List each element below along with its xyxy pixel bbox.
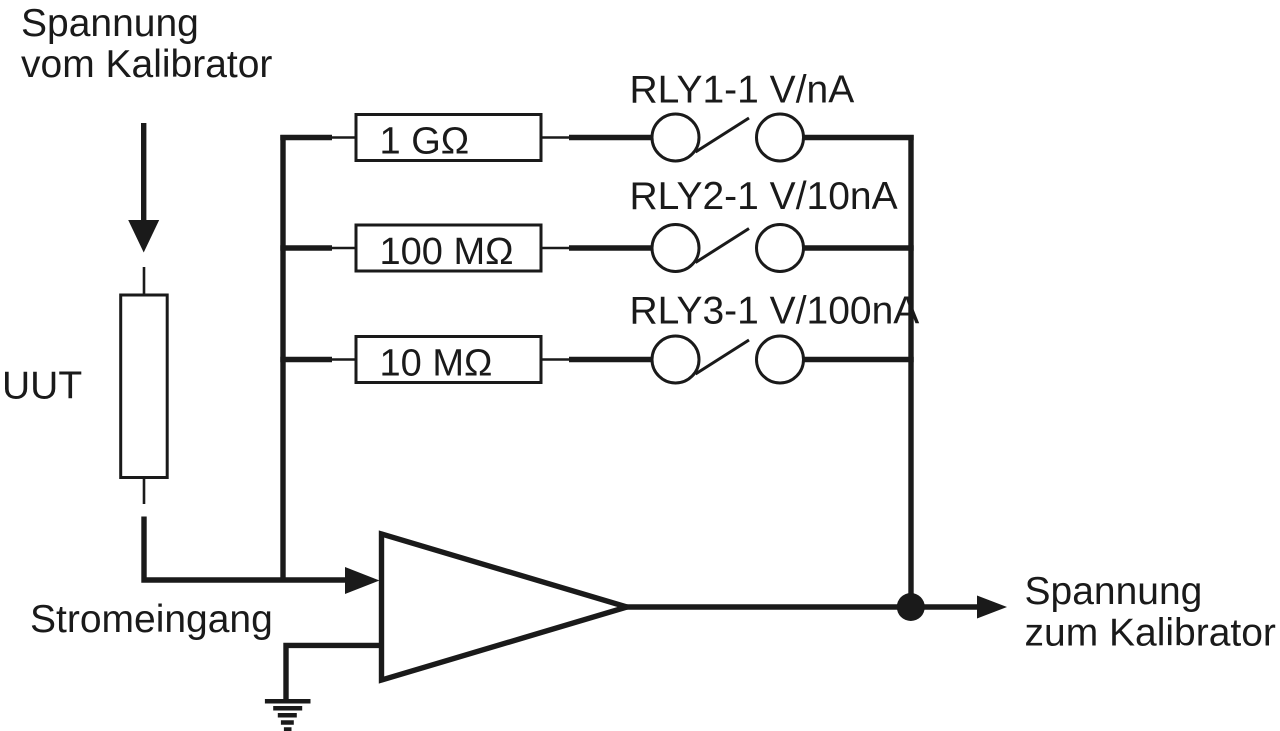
svg-text:Spannung: Spannung [21, 2, 199, 45]
svg-text:vom Kalibrator: vom Kalibrator [21, 43, 272, 86]
wire: row2 to right bus [804, 245, 914, 250]
wire: UUT bottom lead [143, 477, 146, 504]
UUT (unit under test body) [121, 295, 168, 478]
svg-text:UUT: UUT [2, 365, 82, 408]
resistor 10 MOhm box [356, 337, 541, 383]
relay RLY3 contact right terminal [757, 336, 804, 383]
wire: row2 stub thin to resistor [331, 247, 356, 250]
wire: row3 stub thin to resistor [331, 358, 356, 361]
svg-text:Stromeingang: Stromeingang [30, 598, 273, 641]
relay RLY1 switch blade [696, 118, 750, 152]
svg-text:RLY1-1 V/nA: RLY1-1 V/nA [630, 69, 855, 112]
arrowhead: voltage to calibrator [977, 596, 1007, 619]
resistor 100 MOhm box [356, 225, 541, 271]
wire: row3 thin lead from resistor [541, 358, 570, 361]
wire: row1 stub thick from bus [280, 135, 332, 140]
wire: current input run to op-amp non-inverting input [144, 517, 348, 581]
relay RLY3 contact left terminal [652, 336, 699, 383]
wire: input arrow shaft from calibrator [141, 123, 146, 221]
wire: row1 to right bus [804, 135, 914, 140]
relay RLY3 switch blade [696, 340, 750, 374]
arrowhead: into op-amp + input [345, 567, 380, 594]
wire: row1 thick lead to relay contact [569, 135, 652, 140]
relay RLY2 contact left terminal [652, 225, 699, 272]
svg-text:RLY2-1 V/10nA: RLY2-1 V/10nA [630, 175, 898, 218]
wire: row3 stub thick from bus [280, 357, 332, 362]
wire: left bus vertical [280, 135, 285, 580]
wire: row1 stub thin to resistor [331, 136, 356, 139]
wire: row2 stub thick from bus [280, 245, 332, 250]
relay RLY1 contact left terminal [652, 114, 699, 161]
resistor 1 GOhm box [356, 115, 541, 161]
svg-text:10 MΩ: 10 MΩ [380, 343, 493, 385]
relay RLY2 switch blade [696, 229, 750, 263]
wire: UUT top lead [143, 267, 146, 297]
op-amp U1 [382, 534, 628, 680]
svg-text:100 MΩ: 100 MΩ [380, 231, 514, 273]
relay RLY2 contact right terminal [757, 225, 804, 272]
svg-text:1 GΩ: 1 GΩ [380, 121, 470, 163]
wire: op-amp output to node [625, 604, 911, 609]
svg-text:zum Kalibrator: zum Kalibrator [1025, 612, 1276, 655]
wire: row3 to right bus [804, 357, 914, 362]
arrowhead: into UUT [128, 220, 159, 253]
label: Spannung vom Kalibrator (calibrator voltage input) [21, 2, 272, 86]
wire: op-amp inverting input to ground [286, 645, 381, 701]
svg-text:Spannung: Spannung [1025, 570, 1203, 613]
wire: right bus vertical (feedback to output node) [908, 135, 913, 607]
label: Spannung zum Kalibrator (voltage to calibrator) [1025, 570, 1276, 655]
wire: row2 thick lead to relay contact [569, 245, 652, 250]
junction: output node dot [897, 593, 925, 621]
wire: row3 thick lead to relay contact [569, 357, 652, 362]
ground symbol [265, 701, 311, 729]
wire: row2 thin lead from resistor [541, 247, 570, 250]
svg-text:RLY3-1 V/100nA: RLY3-1 V/100nA [630, 290, 920, 333]
wire: row1 thin lead from resistor [541, 136, 570, 139]
relay RLY1 contact right terminal [757, 114, 804, 161]
wire: output arrow shaft [911, 604, 979, 609]
